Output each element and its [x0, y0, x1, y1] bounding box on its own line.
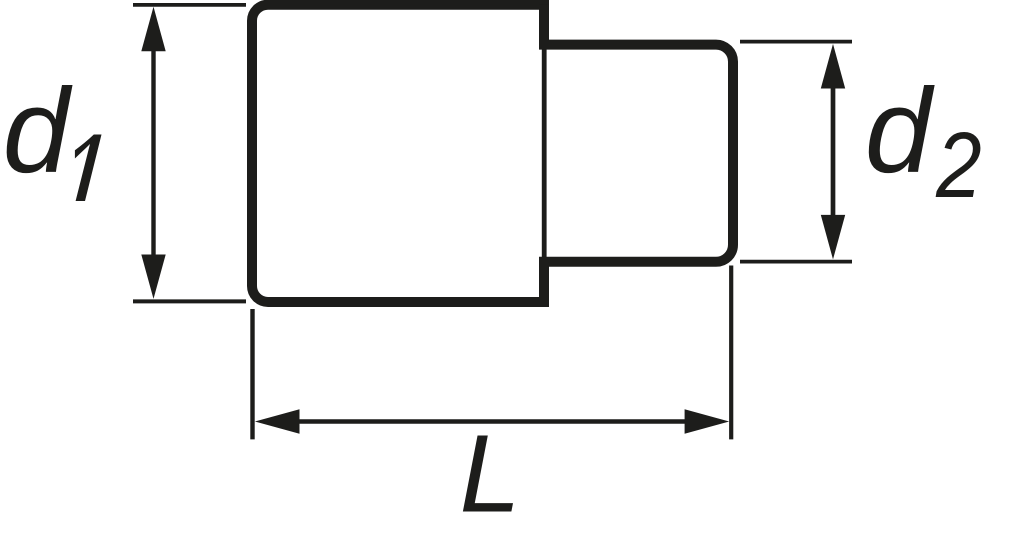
d1 extension line top: [133, 3, 246, 7]
d2 arrow up: [821, 44, 845, 89]
d1 dimension line shaft: [151, 45, 155, 260]
d2 dimension line shaft: [831, 82, 836, 222]
L extension line left: [250, 309, 254, 439]
svg-text:d: d: [865, 64, 935, 198]
d2 arrow down: [821, 215, 845, 260]
svg-text:d: d: [3, 64, 73, 198]
shoulder edge (thin visible edge between segments): [542, 45, 547, 262]
d1 arrow up: [141, 7, 165, 51]
large cylinder (left body segment): [252, 5, 549, 302]
L arrow left: [255, 409, 300, 433]
d2 extension line bottom: [740, 260, 852, 264]
L extension line right: [729, 266, 733, 440]
right edge thick segment bottom: [539, 257, 549, 302]
d1 arrow down: [141, 255, 165, 299]
L dimension line shaft: [292, 419, 692, 423]
d2 extension line top: [740, 40, 852, 44]
svg-text:2: 2: [935, 113, 981, 217]
svg-text:L: L: [460, 413, 521, 536]
small cylinder (right body segment): [540, 45, 733, 262]
d1 extension line bottom: [133, 299, 246, 303]
L arrow right: [685, 409, 730, 433]
right edge thick segment top: [539, 5, 549, 50]
